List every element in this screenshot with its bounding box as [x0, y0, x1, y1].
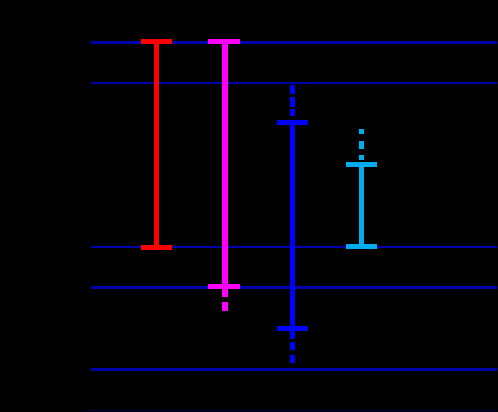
- gridline L4: [91, 286, 498, 289]
- errorbar magenta: lower dash: [222, 302, 227, 311]
- gridline L1: [91, 41, 498, 44]
- errorbar cyan: bottom cap: [346, 244, 377, 249]
- axis baseline (faint): [87, 410, 498, 412]
- errorbar magenta: top cap: [208, 39, 240, 44]
- errorbar cyan: top dash 3: [359, 155, 364, 160]
- errorbar cyan: top cap: [346, 162, 377, 167]
- gridline L5: [91, 368, 498, 371]
- errorbar red: top cap: [141, 39, 171, 44]
- errorbar blue: bottom dash 1: [290, 342, 295, 350]
- errorbar magenta: vertical line: [222, 39, 227, 297]
- errorbar cyan: top dash 2: [359, 141, 364, 150]
- errorbar blue: top dash 3: [290, 109, 295, 115]
- errorbar blue: vertical line: [290, 120, 295, 339]
- errorbar cyan: vertical line: [359, 162, 364, 249]
- gridline L3: [91, 246, 498, 249]
- errorbar red: bottom cap: [141, 245, 171, 250]
- errorbar blue: top cap: [277, 120, 308, 125]
- errorbar blue: top dash 2: [290, 97, 295, 106]
- errorbar blue: top dash 1: [290, 85, 295, 94]
- errorbar blue: bottom dash 2: [290, 355, 295, 363]
- errorbar red: vertical line: [154, 39, 159, 250]
- errorbar blue: bottom cap: [277, 326, 308, 331]
- gridline L2: [91, 82, 498, 85]
- errorbar cyan: top dash 1: [359, 129, 364, 134]
- errorbar magenta: bottom cap: [208, 284, 240, 289]
